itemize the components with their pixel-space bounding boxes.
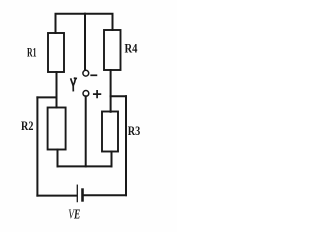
- svg-text:R2: R2: [21, 118, 33, 133]
- wire plus stem: [85, 96, 87, 166]
- resistor R3: [102, 112, 118, 152]
- svg-text:R1: R1: [27, 45, 37, 60]
- wire meter stem: [84, 14, 86, 70]
- wire R3 bottom: [111, 152, 113, 167]
- terminal minus: [83, 70, 89, 76]
- wire right branch: [111, 95, 126, 97]
- resistor R2: [48, 108, 66, 150]
- battery VE: [77, 185, 82, 201]
- label V: [71, 78, 76, 90]
- wire R2 bottom: [57, 150, 59, 167]
- resistor R4: [104, 30, 121, 70]
- wire right outer: [125, 96, 127, 195]
- terminal plus: [83, 91, 89, 97]
- svg-text:VE: VE: [68, 208, 80, 223]
- svg-text:R4: R4: [125, 41, 138, 56]
- wire R4 bottom to R3 top: [110, 70, 112, 112]
- svg-text:R3: R3: [128, 123, 141, 138]
- resistor R1: [48, 33, 64, 72]
- label minus: [91, 74, 96, 76]
- wire R1 bottom to R2 top: [56, 72, 58, 108]
- wire left outer: [36, 97, 38, 195]
- wire bottom left: [37, 195, 76, 197]
- wire left branch: [37, 96, 56, 98]
- label plus: [94, 91, 101, 98]
- wire bottom connector: [58, 165, 112, 167]
- wire bottom right: [84, 194, 126, 196]
- wire top rail: [56, 14, 113, 33]
